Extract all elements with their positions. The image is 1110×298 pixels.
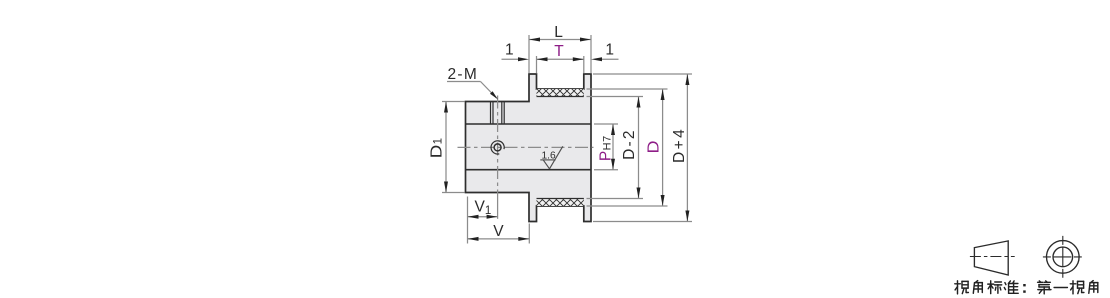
top tooth band crosshatch xyxy=(537,89,584,97)
surface finish symbol 1.6 xyxy=(540,146,563,169)
svg-text:1: 1 xyxy=(505,42,514,59)
dimension D-2 (tooth root diameter) xyxy=(587,97,644,199)
svg-text:1: 1 xyxy=(433,138,445,144)
vertical centerline of setscrew holes xyxy=(497,96,499,194)
dimension D1 (hub outer diameter, left) xyxy=(428,102,464,193)
bottom tooth band crosshatch xyxy=(537,199,584,207)
dimension V (hub width) xyxy=(468,223,530,244)
svg-text:D: D xyxy=(645,141,662,154)
svg-text:1.6: 1.6 xyxy=(542,150,556,161)
label 2-M with leader xyxy=(447,66,498,99)
svg-text:2-M: 2-M xyxy=(448,66,479,83)
caption glyph shi2 xyxy=(1070,281,1084,294)
dimension 1 (right flange thickness) xyxy=(591,42,619,62)
dimension V1 (hub face to setscrew center) xyxy=(468,197,498,244)
svg-text:T: T xyxy=(554,43,564,60)
bore top line xyxy=(466,123,592,125)
horizontal axis centerline xyxy=(458,146,594,148)
pulley body section profile xyxy=(466,74,592,222)
svg-text:L: L xyxy=(554,24,563,41)
caption glyph yi xyxy=(1054,287,1067,289)
setscrew hole end view circles xyxy=(491,141,504,154)
dimension T (top, tooth width, magenta) xyxy=(537,43,584,73)
first angle projection symbol: end view circles xyxy=(1043,236,1082,278)
caption glyph biao xyxy=(988,281,1002,294)
dimension P H7 (bore diameter, magenta P) xyxy=(594,124,618,170)
svg-text:1: 1 xyxy=(605,42,614,59)
svg-text:D-2: D-2 xyxy=(621,128,638,160)
dimension 1 (left flange thickness) xyxy=(502,42,530,62)
svg-text:V1: V1 xyxy=(475,198,492,217)
first angle projection symbol: frustum side view xyxy=(970,241,1015,275)
caption glyph jiao2 xyxy=(1089,281,1098,294)
svg-text:D+4: D+4 xyxy=(671,127,688,163)
caption glyph di xyxy=(1038,281,1051,294)
svg-text:P: P xyxy=(597,151,614,161)
dimension D (pulley outer diameter, magenta) xyxy=(587,89,668,206)
bore bottom line xyxy=(466,169,592,171)
caption glyph jiao xyxy=(973,281,982,294)
svg-text:V: V xyxy=(493,223,504,240)
dimension L (top, flange outer width) xyxy=(529,24,591,73)
caption glyph zhun xyxy=(1004,281,1018,293)
dimension D+4 (flange outer diameter) xyxy=(593,74,692,222)
svg-text:H7: H7 xyxy=(602,135,614,150)
caption glyph shi xyxy=(955,281,969,294)
caption glyph colon xyxy=(1023,284,1025,293)
svg-text:D: D xyxy=(428,145,445,159)
tapped hole 2-M side view xyxy=(491,102,505,125)
